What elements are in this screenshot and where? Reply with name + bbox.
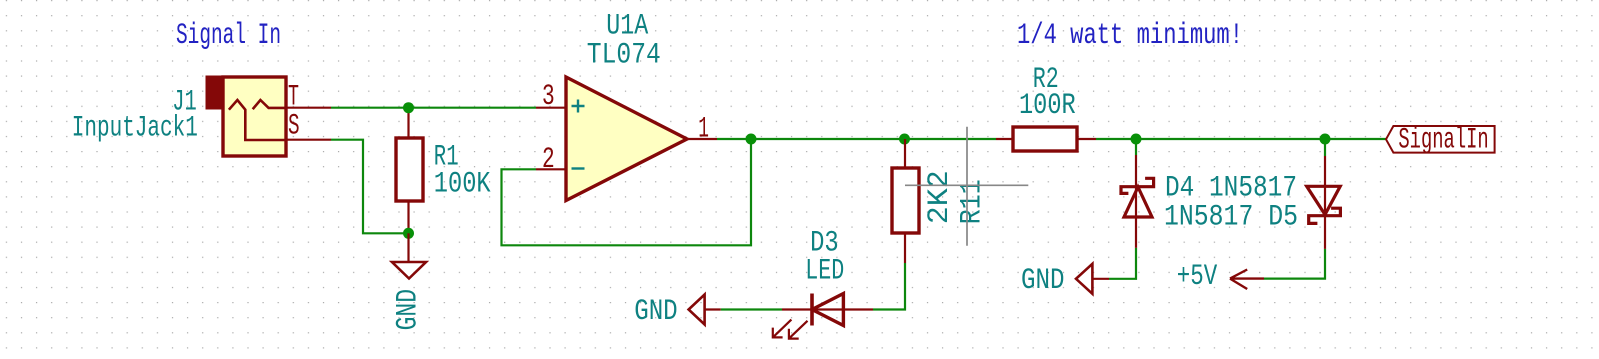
junction at R1 bottom: [403, 228, 414, 239]
wire D4 bottom to GND: [1109, 248, 1136, 279]
wire R2 to SignalIn label: [1096, 138, 1386, 140]
power +5V arrow: [1230, 270, 1264, 290]
junction at D5: [1320, 134, 1331, 145]
pin 3 of U1A: [536, 107, 566, 109]
led D3 cathode bar: [810, 294, 814, 326]
svg-text:InputJack1: InputJack1: [72, 112, 198, 146]
svg-text:100K: 100K: [434, 168, 491, 202]
svg-text:GND: GND: [634, 295, 678, 329]
ground stub D3: [705, 308, 721, 310]
svg-text:GND: GND: [1021, 264, 1065, 298]
wire D5 top: [1324, 139, 1326, 156]
svg-text:2K2: 2K2: [923, 170, 957, 224]
resistor R2: [1013, 127, 1077, 151]
svg-text:3: 3: [542, 80, 555, 114]
crosshair cursor: [905, 127, 1028, 246]
op-amp U1A body: [566, 77, 687, 201]
diode D4 pin bottom: [1135, 217, 1137, 248]
gnd stub below R1: [407, 233, 409, 262]
hierarchical label SignalIn: [1386, 126, 1495, 153]
svg-text:GND: GND: [392, 289, 426, 331]
pin D3 cathode: [782, 308, 843, 310]
svg-text:Signal In: Signal In: [176, 19, 281, 53]
resistor R1: [396, 138, 423, 201]
svg-text:TL074: TL074: [587, 39, 661, 73]
pin R2 left: [996, 138, 1013, 140]
svg-text:1: 1: [698, 113, 709, 147]
diode D5 pin top: [1324, 156, 1326, 215]
ground symbol below R1: [392, 262, 426, 279]
svg-text:SignalIn: SignalIn: [1398, 124, 1488, 158]
diode D5 schottky bar: [1309, 208, 1341, 223]
wire D4 top: [1135, 139, 1137, 155]
led D3 emission arrow 1: [773, 320, 792, 338]
svg-text:100R: 100R: [1019, 89, 1076, 123]
svg-text:LED: LED: [805, 255, 844, 289]
wire opamp output to R2: [717, 138, 996, 140]
jack J1 body: [223, 77, 286, 156]
junction at D4: [1131, 134, 1142, 145]
op-amp plus sign: [572, 100, 585, 113]
wire S jack to R1 bottom: [331, 140, 409, 234]
diode D5 triangle: [1307, 186, 1341, 214]
wire feedback output to pin2: [502, 139, 752, 245]
diode D5 pin bottom: [1324, 215, 1326, 249]
pin 2K2 top: [904, 139, 906, 168]
svg-text:1/4 watt minimum!: 1/4 watt minimum!: [1017, 19, 1243, 53]
svg-text:+5V: +5V: [1177, 260, 1217, 294]
wire T jack to opamp pin3: [331, 107, 536, 109]
resistor R11 2K2: [892, 168, 919, 233]
svg-text:S: S: [288, 110, 300, 144]
ground symbol below D4: [1076, 264, 1092, 294]
pin 2 of U1A: [536, 168, 566, 170]
diode D4 triangle: [1124, 187, 1152, 217]
jack J1 S contact: [229, 100, 286, 140]
pin R2 right: [1077, 138, 1096, 140]
ground symbol left of D3: [689, 295, 705, 325]
pin S of J1: [286, 139, 331, 141]
op-amp minus sign: [572, 167, 585, 169]
jack J1 sleeve block: [206, 76, 224, 109]
pin R1 top: [407, 108, 409, 138]
pin T of J1: [286, 107, 331, 109]
svg-text:2: 2: [542, 143, 555, 177]
wire D5 bottom to +5V: [1264, 249, 1325, 279]
diode D4 pin top: [1135, 155, 1137, 217]
pin 2K2 bottom: [904, 233, 906, 263]
ground stub D4: [1092, 278, 1109, 280]
wire 2K2 bottom to LED anode: [873, 263, 905, 310]
wire LED cathode to GND: [721, 308, 782, 310]
junction at output: [746, 134, 757, 145]
pin D3 anode: [843, 308, 873, 310]
junction at R1 top: [403, 102, 414, 113]
junction at 2K2 top: [899, 134, 910, 145]
led D3 emission arrow 2: [789, 321, 808, 339]
jack J1 T contact: [253, 100, 286, 109]
led D3 triangle: [812, 294, 843, 326]
diode D4 schottky bar: [1121, 178, 1154, 193]
svg-text:1N5817 D5: 1N5817 D5: [1164, 200, 1298, 234]
pin R1 bottom: [407, 201, 409, 233]
pin 1 output of U1A: [687, 138, 717, 140]
